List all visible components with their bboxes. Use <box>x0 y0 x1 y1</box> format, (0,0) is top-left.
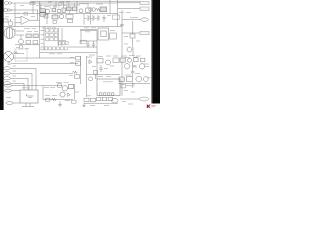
resistor R25 <box>58 84 62 87</box>
resistor R24 <box>127 77 133 82</box>
wire ls1 b <box>14 57 76 59</box>
wire y83 bottomright <box>118 83 150 85</box>
diode cluster D2 <box>89 60 92 64</box>
transistor Q9 <box>124 64 129 69</box>
wire top bus y5 <box>40 4 80 6</box>
transistor Q10 <box>139 64 144 69</box>
wire vline x33 <box>32 1 34 14</box>
connector oval CN1 <box>3 67 10 70</box>
wire y44.5 <box>15 44 40 46</box>
wire cn5 <box>12 85 62 87</box>
resistor R18 zigzag <box>14 51 18 53</box>
wire y33 right <box>122 32 140 34</box>
IC U2 <box>100 7 107 12</box>
connector oval CN2 <box>3 72 10 75</box>
speaker LS1 circle <box>4 52 14 62</box>
wire vline x44 bank <box>43 27 45 51</box>
wire y99.5 <box>43 99 73 101</box>
inductor L1 <box>66 14 73 18</box>
wire vline x63.5 <box>63 1 65 8</box>
wire q1 stub <box>10 19 12 21</box>
label row1 <box>41 29 45 31</box>
capacitor C3 vertical <box>102 15 105 22</box>
wire vline x96 <box>95 75 97 80</box>
wire double bus y29.5 <box>80 28 97 30</box>
connector P2 left <box>4 9 12 12</box>
connector J3 <box>141 18 149 22</box>
wire bus y74.5 <box>87 74 121 76</box>
resistor R15 <box>26 41 31 44</box>
wire cn1 <box>11 67 36 69</box>
red logo text <box>151 105 156 106</box>
motor M1 big circle <box>4 27 15 38</box>
label bottom mid <box>65 100 70 102</box>
transistor Q13 <box>62 86 67 91</box>
resistor R23 <box>119 77 124 81</box>
wire cn4 drop <box>23 83 25 90</box>
component column x76 box1 <box>76 57 81 60</box>
wire vline x37.5 <box>37 10 39 20</box>
wire double bus y30.5 <box>80 30 97 32</box>
left black bar <box>0 0 4 110</box>
wire k2 pins down <box>22 103 34 107</box>
tiny label marks scattered <box>5 2 151 106</box>
resistor R19 below L1 <box>68 19 73 22</box>
wire vline x43 <box>42 86 44 100</box>
wire q5 <box>20 35 22 39</box>
diode D4 <box>68 93 71 96</box>
wire y47 right <box>68 46 97 48</box>
wire cn6 <box>12 90 20 92</box>
wire bus y63.5 <box>11 63 78 65</box>
box U7 <box>113 58 119 63</box>
resistor R29 <box>97 97 101 100</box>
wire cn2 <box>11 72 32 74</box>
resistor R31 <box>108 97 112 100</box>
label row3 <box>41 38 45 40</box>
resistor R32 <box>84 98 89 101</box>
wire vline x122 <box>121 10 123 96</box>
capacitor C1 <box>62 8 65 12</box>
wire cn1 drop <box>35 68 37 90</box>
component x94 <box>94 71 98 75</box>
capacitor C4 <box>120 25 124 26</box>
resistor R8 <box>72 7 76 11</box>
wire vline x58.6 bank <box>58 28 60 46</box>
wire q6 stub <box>132 47 134 56</box>
transformer T1 <box>89 8 96 12</box>
connector J2 <box>140 7 149 10</box>
resistor R12 vertical <box>92 15 94 21</box>
wire ls1 a <box>14 53 25 55</box>
transistor Q7 <box>106 60 111 65</box>
label row2 <box>41 34 45 36</box>
resistor R12b vertical <box>97 15 99 21</box>
component top small <box>30 2 35 4</box>
resistor R22 zigzag <box>132 65 137 67</box>
component bottom-right small cluster <box>121 85 126 88</box>
resistor bank row3 <box>46 38 58 41</box>
wire vline x15 <box>14 3 16 27</box>
transistor Q12 <box>143 77 148 82</box>
wire cn8 <box>120 98 139 100</box>
resistor bank row4 <box>41 47 67 50</box>
right black bar <box>152 0 160 104</box>
wire vline x117.5 <box>117 0 119 27</box>
component R28 <box>72 100 77 103</box>
resistor R5a <box>40 9 45 12</box>
wire vline x47 <box>46 14 48 25</box>
box U4 inner <box>101 31 106 37</box>
capacitor C6 <box>86 41 89 48</box>
wire vline x133 upper <box>132 21 134 34</box>
capacitor C12 small <box>53 20 56 23</box>
wire U1 in+ <box>15 17 21 19</box>
resistor R21 <box>134 58 139 62</box>
capacitor C8 <box>99 65 102 72</box>
resistor R13 <box>26 34 31 38</box>
resistor R17 <box>73 71 78 73</box>
resistor R33 <box>91 98 96 101</box>
wire U1 in- <box>15 22 21 24</box>
wire to J3 <box>122 19 141 21</box>
wire m1 a <box>15 30 24 32</box>
component R27 <box>46 98 50 101</box>
wire bus y13.5 <box>5 13 118 15</box>
wire vline x74.5 <box>74 84 76 100</box>
wire vline x84 <box>83 14 85 25</box>
resistor R5b <box>40 13 45 16</box>
transistor Q8 <box>128 58 132 62</box>
transistor Q15 below bus <box>89 77 93 81</box>
transistor Q2 <box>45 9 49 13</box>
wire cn3 drop <box>27 78 29 90</box>
transistor Q4 <box>59 14 63 18</box>
capacitor C9 <box>131 72 134 77</box>
wire vline x86.5 <box>86 56 88 97</box>
box U6 <box>97 59 103 63</box>
transistor Q1 <box>8 21 13 26</box>
wire bus y26.5 <box>4 26 122 28</box>
capacitor above U1 <box>24 12 28 15</box>
ground GND2 <box>82 103 85 107</box>
label trio <box>58 39 66 41</box>
wire vline x40 <box>39 3 41 9</box>
capacitor C10 ellipse <box>112 98 118 103</box>
wire top bus y3 <box>11 2 118 4</box>
resistor R26 zigzag <box>52 98 57 100</box>
label box REG <box>80 40 87 44</box>
transistor Q5b below <box>19 45 23 49</box>
resistor R7 <box>67 7 72 11</box>
wire y41 <box>80 40 97 42</box>
wire vline x133 bottomright <box>132 62 134 72</box>
resistor bank row2 <box>46 33 58 36</box>
wire vline x77 <box>76 1 78 13</box>
resistor R9 lower <box>44 14 48 18</box>
paper background <box>0 0 160 110</box>
transistor Q14 <box>60 92 65 97</box>
wire stubs top cluster <box>41 3 88 15</box>
resistor R11 vertical <box>87 15 89 21</box>
wire top bus y1 <box>30 0 140 2</box>
transistor Q16 top <box>58 2 61 5</box>
connector oval CN6 <box>4 89 11 92</box>
U9 pins bottom <box>100 93 114 96</box>
transistor Q6 <box>127 47 132 52</box>
wire U1 out <box>30 19 40 21</box>
wire m1 b <box>15 34 24 36</box>
wire vline x90.5 <box>90 14 92 25</box>
ground GND1 <box>58 102 62 107</box>
wire vline x97 long <box>96 31 98 79</box>
right bar taper <box>151 0 152 104</box>
connector oval CN5 <box>4 84 11 87</box>
wire from P2 <box>12 9 38 11</box>
connector oval CN3 <box>3 77 10 80</box>
connector oval CN7 <box>6 102 13 105</box>
resistor R30 <box>102 97 106 100</box>
wire cn4 <box>11 82 24 84</box>
resistor trio mid <box>58 42 68 45</box>
resistor bank row1 <box>46 29 58 32</box>
wire vline x81 <box>80 31 82 44</box>
resistor R6 <box>52 8 56 12</box>
wire vline x80.5 <box>80 56 82 84</box>
box frame dashed region <box>15 49 27 61</box>
wire to J1 <box>118 2 140 4</box>
diode D3 <box>141 58 145 62</box>
wire vline x56 <box>55 1 57 8</box>
relay K1 <box>52 15 58 19</box>
box U3 <box>113 15 120 19</box>
wire cn2 drop <box>31 73 33 90</box>
resistor R1 <box>4 19 9 22</box>
battery symbol inside K2 <box>27 94 34 98</box>
op-amp U1 <box>21 16 30 25</box>
component column x76 box2 <box>76 62 81 65</box>
red logo K <box>147 105 151 108</box>
resistor R20 <box>120 58 125 62</box>
resistor R10 zigzag <box>96 8 101 10</box>
relay box K2 <box>20 90 38 103</box>
wire to J2 <box>118 8 140 10</box>
component U8 <box>69 85 74 89</box>
box U4 outer <box>98 28 109 40</box>
box U5 <box>110 33 117 39</box>
wire bus y52.5 <box>40 52 97 54</box>
wire vline x110 <box>109 0 111 14</box>
diode D1 <box>57 10 61 13</box>
connector P1 top-left <box>4 2 11 5</box>
connector J1 top-right <box>140 1 149 4</box>
transistor Q11 <box>136 76 142 82</box>
component column x76 box3 <box>75 75 80 78</box>
connector oval CN4 <box>3 82 10 85</box>
capacitor C7 <box>92 41 95 48</box>
wire k2 pin up <box>28 86 30 90</box>
IC big box U9 <box>97 79 120 96</box>
capacitor C11 <box>126 82 134 88</box>
wire mid y73 segment <box>40 72 73 74</box>
connector oval CN8 <box>139 97 149 101</box>
capacitor C5 <box>7 62 10 65</box>
connector J4 <box>140 31 149 34</box>
wire vline x39.5 <box>39 1 41 58</box>
resistor R16 <box>33 41 38 44</box>
wire vline x132.5 <box>132 38 134 47</box>
crystal X1 <box>130 34 135 38</box>
wire vline x62 bank <box>61 28 63 46</box>
wire y103.2 <box>84 102 118 104</box>
wire cn7 <box>13 102 20 104</box>
capacitor C2 <box>86 8 90 13</box>
resistor R14 <box>33 34 38 38</box>
transistor Q3 <box>79 9 83 13</box>
transistor Q5 <box>19 39 24 44</box>
wire cn3 <box>11 77 28 79</box>
